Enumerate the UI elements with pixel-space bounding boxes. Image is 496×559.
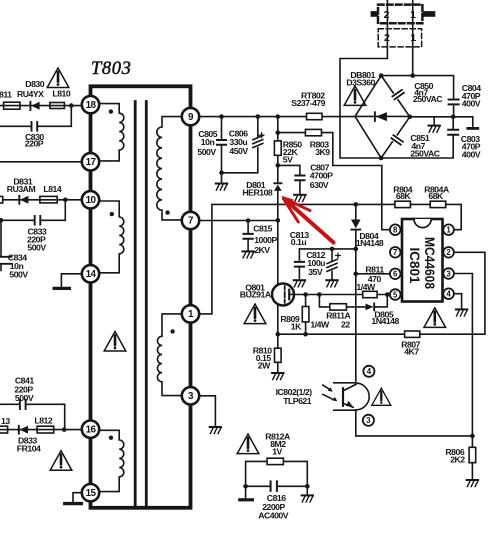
svg-text:L812: L812 [34, 415, 52, 425]
warning triangle transformer [104, 332, 126, 352]
pin circle 14 [82, 265, 99, 282]
svg-text:68K: 68K [396, 191, 412, 201]
node pin5 [385, 292, 390, 297]
svg-text:16: 16 [86, 424, 97, 435]
svg-text:630V: 630V [310, 180, 329, 190]
red arrow pointing at D801 [281, 196, 333, 243]
capacitor C805 [197, 117, 226, 173]
node R806 [470, 434, 475, 439]
svg-text:22: 22 [341, 319, 350, 329]
svg-text:1: 1 [410, 9, 416, 21]
wire R850 column [277, 117, 279, 141]
svg-text:1V: 1V [272, 446, 282, 456]
svg-text:400V: 400V [462, 98, 481, 108]
node R850 top [276, 114, 281, 119]
node connector1 rail [410, 73, 415, 78]
winding 18-17 [99, 104, 124, 161]
svg-text:MC44608: MC44608 [422, 237, 437, 289]
svg-text:13: 13 [1, 416, 10, 426]
resistor R809 [280, 295, 309, 335]
svg-text:S237-479: S237-479 [291, 98, 325, 108]
resistor R804A [424, 184, 461, 229]
ground C816 right [302, 486, 313, 502]
ground C805 [216, 173, 227, 190]
svg-text:500V: 500V [197, 147, 216, 157]
svg-text:AC400V: AC400V [258, 511, 289, 521]
capacitor C804 [449, 83, 482, 117]
connector plug bottom [378, 29, 421, 47]
svg-text:250VAC: 250VAC [413, 94, 443, 104]
svg-text:BUZ91A: BUZ91A [240, 289, 272, 299]
svg-text:2: 2 [384, 32, 390, 44]
svg-text:1/4W: 1/4W [310, 319, 330, 329]
resistor R850 [274, 139, 302, 165]
svg-text:10n: 10n [201, 137, 215, 147]
connector line 2 [340, 0, 387, 158]
capacitor C815 [244, 221, 278, 255]
transformer core [135, 102, 146, 508]
resistor R811A [310, 295, 365, 330]
pin circle 15 [82, 484, 99, 501]
IC801 pin 2 [443, 247, 454, 258]
node bridge top [379, 73, 384, 78]
warning triangle D830 [47, 68, 69, 88]
node C816 right [305, 484, 310, 489]
diode D801 HER108 [242, 165, 281, 220]
IC801 pin 4 [443, 288, 454, 299]
node R809 bottom [303, 332, 308, 337]
ground C813 [294, 280, 305, 287]
resistor R803 [278, 129, 390, 229]
svg-text:1: 1 [410, 32, 416, 44]
resistor R812A [246, 431, 308, 486]
ground C807 [294, 195, 305, 202]
svg-text:400V: 400V [462, 149, 481, 159]
wire pin3 transformer ground [199, 396, 215, 426]
svg-text:T803: T803 [91, 59, 131, 79]
capacitor C816 [246, 481, 308, 520]
svg-text:FR104: FR104 [17, 444, 41, 454]
svg-text:35V: 35V [308, 267, 323, 277]
svg-text:68K: 68K [428, 191, 444, 201]
svg-text:220P: 220P [25, 139, 44, 149]
IC802 pin 4 circle [363, 366, 374, 377]
diode D833 FR104 [17, 426, 41, 454]
ground R806 [467, 480, 478, 487]
svg-text:TLP621: TLP621 [283, 396, 312, 406]
pin circle 16 [82, 421, 99, 438]
warning triangle DB801 [344, 86, 366, 106]
light arrows IC802 [323, 385, 338, 401]
inductor L814 [40, 184, 62, 203]
svg-text:1K: 1K [291, 321, 302, 331]
svg-text:1N4148: 1N4148 [371, 316, 399, 326]
svg-text:L810: L810 [52, 88, 70, 98]
C851 labels [410, 133, 440, 159]
IC801 pin 6 [390, 269, 401, 280]
node C833 left [0, 218, 3, 223]
svg-text:17: 17 [86, 157, 97, 168]
winding 1-3 [157, 314, 182, 396]
warning triangle R812A [237, 434, 259, 454]
transistor Q801 BUZ91A [240, 282, 294, 305]
ground C815 [242, 251, 253, 258]
resistor R804 [393, 184, 430, 207]
capacitor C841 [0, 375, 65, 429]
svg-text:L814: L814 [43, 184, 61, 194]
svg-text:4K7: 4K7 [404, 346, 419, 356]
svg-text:HER108: HER108 [242, 187, 273, 197]
node C816 left [243, 484, 248, 489]
svg-text:450V: 450V [229, 146, 248, 156]
ground C816 left [240, 486, 253, 500]
capacitor C850 [389, 89, 405, 103]
node drain pin7 [276, 218, 281, 223]
node C812 [330, 247, 335, 252]
resistor R810 [253, 334, 281, 371]
node pin6 [354, 272, 359, 277]
node C805 bottom [219, 171, 224, 176]
warning triangle IC802 [372, 388, 391, 405]
svg-text:C815: C815 [253, 223, 272, 233]
inductor L810 [50, 88, 71, 108]
node R809 top [303, 292, 308, 297]
svg-text:1: 1 [446, 226, 451, 235]
svg-text:250VAC: 250VAC [410, 149, 440, 159]
node source [276, 332, 281, 337]
inductor at left edge row10 [0, 196, 3, 203]
node D804 [354, 202, 359, 207]
capacitor C803 [381, 117, 481, 160]
capacitor C807 [278, 162, 333, 193]
svg-text:2: 2 [446, 248, 451, 257]
resistor R811 [294, 264, 390, 297]
IC801 pin 8 [390, 224, 401, 235]
diode D830 RU4YX [17, 79, 45, 110]
wire opto emitter rail [356, 435, 473, 437]
resistor R806 [445, 447, 475, 478]
ground C812 [326, 280, 337, 287]
inductor L812 [34, 415, 53, 433]
node pin10 [63, 198, 68, 203]
node pin18 [69, 103, 74, 108]
optocoupler IC802 TLP621 [276, 383, 370, 436]
pin circle 7 [182, 212, 199, 229]
wire pin3 column [454, 274, 473, 448]
warning triangle D833 [50, 451, 72, 471]
capacitor C813 [290, 230, 309, 279]
wire source rail [278, 333, 485, 335]
wire pin14 ground [61, 274, 82, 287]
thermistor RT802 [291, 90, 325, 119]
transformer T803 body [91, 86, 191, 508]
IC801 pin 5 [390, 289, 401, 300]
node bridge right [408, 115, 413, 120]
connector line 1 [412, 0, 414, 76]
resistor R807 [401, 331, 420, 356]
C850 labels [413, 81, 443, 104]
wire pin4 ground [454, 294, 467, 316]
svg-text:5V: 5V [283, 154, 293, 164]
wire top rail to C804 [381, 76, 453, 99]
pin circle 1 [182, 305, 199, 322]
svg-text:3K9: 3K9 [315, 147, 330, 157]
svg-text:500V: 500V [9, 269, 28, 279]
svg-text:5: 5 [393, 290, 398, 299]
svg-text:15: 15 [86, 488, 97, 499]
node C807 [276, 163, 281, 168]
pin circle 10 [82, 191, 99, 208]
svg-text:7: 7 [393, 248, 397, 257]
svg-text:500V: 500V [27, 242, 46, 252]
capacitor C833 [1, 200, 65, 253]
svg-text:D3S360: D3S360 [346, 77, 375, 87]
diode D804 1N4148 [351, 204, 384, 249]
IC801 pin 7 [390, 247, 401, 258]
pin circle 9 [182, 108, 199, 125]
capacitor C812 electrolytic [306, 249, 340, 279]
svg-text:2KV: 2KV [254, 245, 270, 255]
wire pin7 [199, 220, 278, 222]
wire pin9 rail [199, 116, 355, 118]
connector plug top [371, 5, 436, 24]
svg-text:14: 14 [86, 269, 97, 280]
wire pin2 feedback [454, 252, 485, 334]
winding 10-14 [99, 201, 124, 273]
IC802 pin 3 circle [363, 415, 374, 426]
svg-text:3: 3 [446, 269, 451, 278]
svg-text:2K2: 2K2 [450, 454, 465, 464]
wire aux rail pin1 [199, 204, 395, 314]
node VCC [354, 247, 359, 252]
svg-text:1000P: 1000P [254, 235, 277, 245]
svg-text:0.1u: 0.1u [291, 237, 307, 247]
wire Q801 source [277, 306, 279, 335]
capacitor C806 electrolytic [222, 117, 264, 173]
wire pin17 row [0, 161, 82, 163]
wire bridge right rail [410, 117, 473, 127]
ground pin3 [210, 427, 221, 434]
capacitor C830 [0, 106, 71, 149]
svg-text:6: 6 [393, 270, 398, 279]
node R811A top [317, 292, 322, 297]
pin circle 17 [82, 153, 99, 170]
svg-text:8: 8 [393, 226, 398, 235]
node C815 [246, 218, 251, 223]
IC801 pin 1 [443, 224, 454, 235]
IC801 MC44608 package [402, 219, 443, 302]
svg-text:3: 3 [366, 416, 371, 425]
node C804 C803 [451, 115, 456, 120]
wire pin15 ground [73, 493, 82, 502]
ground R810 [272, 373, 283, 380]
svg-text:4: 4 [367, 367, 372, 376]
warning triangle Q801 [244, 304, 266, 324]
svg-text:IC801: IC801 [407, 248, 422, 285]
svg-text:RU4YX: RU4YX [17, 89, 44, 99]
svg-text:18: 18 [86, 100, 97, 111]
svg-text:1N4148: 1N4148 [356, 238, 384, 248]
svg-text:D830: D830 [25, 79, 44, 89]
wire VCC column to pin6 [355, 249, 357, 274]
warning triangle IC801 [424, 308, 446, 328]
bridge rectifier DB801 D3S360 [346, 70, 409, 158]
ground bar C804 stub [468, 127, 478, 130]
svg-text:10: 10 [86, 195, 97, 206]
wire pin6 [356, 273, 390, 275]
inductor L813 [0, 416, 10, 433]
svg-text:811: 811 [0, 89, 12, 99]
svg-text:4: 4 [446, 290, 451, 299]
node C805 [219, 114, 224, 119]
ground chassis on right rail [429, 117, 440, 132]
wire VCC to caps [299, 248, 355, 250]
wire pin18 row [0, 105, 82, 107]
inductor L811 [0, 89, 20, 109]
pin circle 3 [182, 387, 199, 404]
diode D805 1N4148 [366, 295, 400, 326]
capacitor C834 [0, 220, 28, 279]
IC801 pin 3 [443, 268, 454, 279]
winding 9-7 [157, 117, 182, 220]
diode D831 RU3AM [7, 177, 36, 204]
svg-text:RU3AM: RU3AM [7, 184, 36, 194]
pin circle 18 [82, 96, 99, 113]
wire VCC column to opto [355, 274, 357, 383]
node bridge bottom [379, 156, 384, 161]
node R803 [276, 130, 281, 135]
wire pin16 row [0, 429, 82, 431]
svg-text:2W: 2W [258, 360, 271, 370]
capacitor C851 [388, 132, 404, 146]
wire pin10 row [0, 199, 82, 201]
wire Q801 drain [277, 220, 279, 284]
ground pin15 [65, 502, 82, 505]
node pin16 [62, 427, 67, 432]
svg-text:1/4W: 1/4W [356, 282, 376, 292]
svg-text:2: 2 [384, 9, 390, 21]
node C806 [255, 114, 260, 119]
winding 16-15 [99, 430, 124, 491]
ground pin14 [54, 287, 69, 290]
svg-text:500V: 500V [15, 393, 34, 403]
